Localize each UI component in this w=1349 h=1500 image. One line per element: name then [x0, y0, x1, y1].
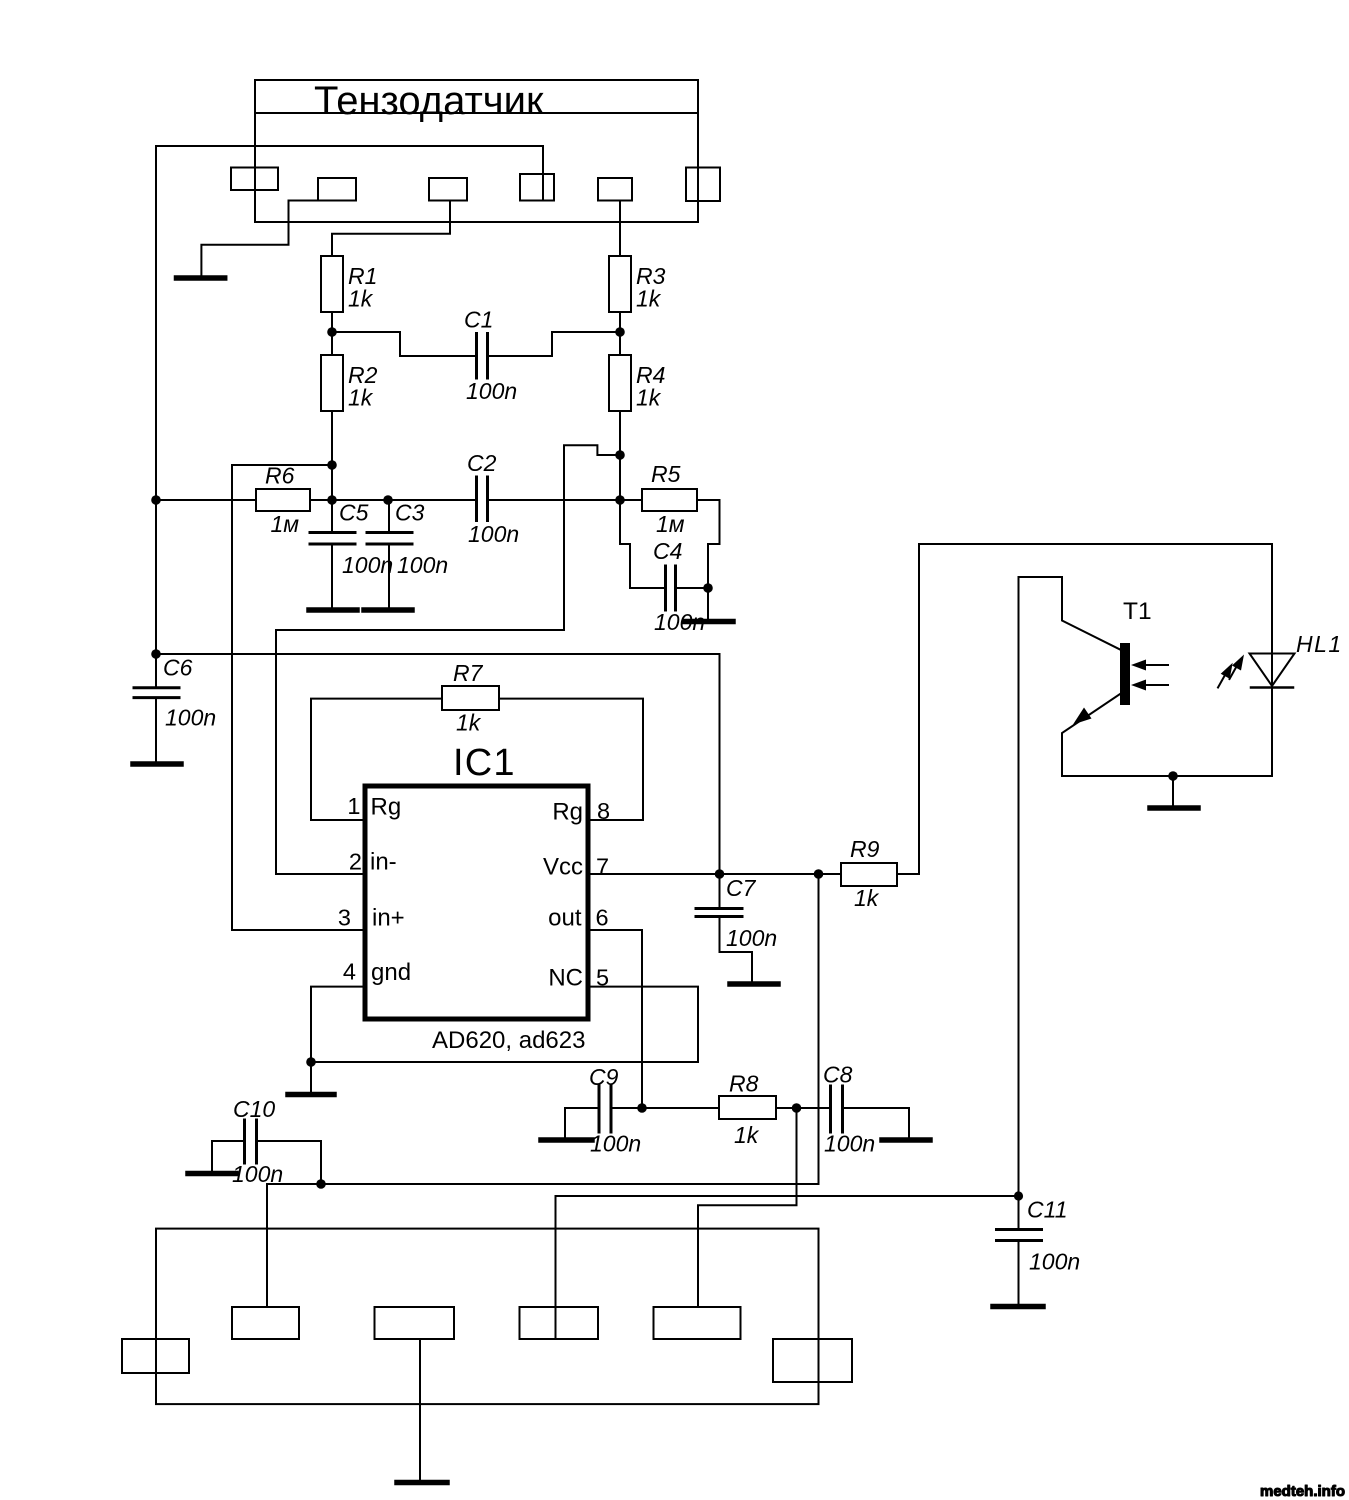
capacitor C11 — [997, 1228, 1042, 1231]
output connector box (bottom) — [156, 1229, 819, 1405]
node: optocoupler ground junction — [1168, 771, 1178, 781]
node D: R4/R5/C2 junction — [615, 495, 625, 505]
ground (C7) — [730, 981, 778, 987]
node: R8/C8 junction — [792, 1103, 802, 1113]
resistor R9 — [841, 863, 897, 886]
svg-text:1k: 1k — [348, 286, 374, 312]
svg-text:1: 1 — [347, 793, 360, 819]
capacitor C7 — [696, 907, 742, 910]
svg-text:C9: C9 — [589, 1064, 619, 1090]
node A: R1/R2/C1 — [327, 327, 337, 337]
pad PA (bottom connector, leftmost) — [122, 1339, 189, 1373]
pad P4 — [520, 174, 554, 201]
wire: IC1 pin6 out down to C9/R8 node — [589, 930, 642, 1108]
wire: IC1 pin4 gnd to ground — [311, 987, 364, 1092]
ground (C9) — [541, 1137, 592, 1143]
pad P5 — [598, 178, 632, 201]
node: R9 left junction — [814, 869, 824, 879]
wire: C3 top stub — [388, 500, 390, 531]
node: C11 / collector / output junction — [1014, 1191, 1023, 1200]
svg-text:100n: 100n — [1029, 1249, 1080, 1275]
svg-text:AD620, ad623: AD620, ad623 — [432, 1027, 585, 1054]
svg-text:Vcc: Vcc — [543, 854, 583, 881]
wire: in+ net (node C to IC1 pin3) — [232, 465, 364, 930]
wire: left vertical rail — [155, 146, 157, 654]
svg-text:C5: C5 — [339, 500, 369, 526]
wire: C10 right to Vcc distribution line — [258, 1141, 321, 1184]
ground (output connector) — [397, 1480, 447, 1486]
wire: pad P5 to R3 top — [619, 201, 621, 257]
wire: Vcc distribution line to pad PB — [267, 1184, 819, 1307]
capacitor C1 — [475, 334, 478, 379]
wire: C3 bottom to ground — [388, 546, 390, 608]
svg-text:3: 3 — [338, 905, 351, 931]
wire: C10 left to ground — [212, 1141, 243, 1171]
pad PC — [375, 1307, 455, 1339]
wire: top horizontal from left rail to pad P4 — [156, 146, 543, 201]
wire: C2 right to R5 left — [490, 499, 643, 501]
resistor R3 — [609, 256, 631, 312]
wire: node D to C4 left — [620, 500, 664, 588]
wire: C6 bottom to ground — [155, 699, 157, 762]
ground (C11) — [993, 1304, 1043, 1310]
LED HL1 — [1250, 654, 1295, 687]
node: R6/C5/R2 junction — [327, 495, 337, 505]
svg-text:in-: in- — [370, 849, 397, 876]
pad PB — [232, 1307, 299, 1339]
wire: C4 right plate to junction — [678, 587, 709, 589]
ground (C10 left) — [188, 1171, 236, 1177]
svg-text:C2: C2 — [467, 450, 497, 476]
svg-text:C6: C6 — [163, 655, 193, 681]
svg-text:Rg: Rg — [371, 794, 402, 821]
wire: output line C11 to pad PD — [556, 1196, 1019, 1339]
ground (C8) — [882, 1137, 930, 1143]
node: R4 bottom / in- tap — [615, 450, 625, 460]
pad P3 — [429, 178, 467, 201]
svg-text:gnd: gnd — [371, 959, 411, 986]
wire: C7 top stub — [719, 874, 721, 906]
svg-text:100n: 100n — [590, 1131, 641, 1157]
svg-text:100n: 100n — [654, 609, 705, 635]
svg-text:100n: 100n — [726, 925, 777, 951]
capacitor C5 — [310, 531, 355, 534]
pad P6 (top connector, rightmost) — [686, 168, 720, 202]
svg-text:IC1: IC1 — [453, 742, 516, 784]
wire: C6 top stub — [155, 654, 157, 686]
svg-text:C7: C7 — [726, 875, 757, 901]
node: pin7 / C7 / Vcc junction — [715, 869, 725, 879]
capacitor C8 — [829, 1086, 832, 1132]
ground (IC1 pin4) — [288, 1092, 334, 1098]
resistor R8 — [719, 1096, 776, 1119]
wire: R3 bottom to R4 top — [619, 312, 621, 355]
transistor T1 base bar — [1120, 643, 1130, 705]
node: C3 junction — [383, 495, 393, 505]
svg-text:C3: C3 — [395, 500, 425, 526]
svg-text:C4: C4 — [653, 538, 682, 564]
transistor T1 emitter lead with arrow — [1062, 694, 1120, 776]
svg-text:in+: in+ — [372, 905, 405, 932]
capacitor C3 — [367, 531, 412, 534]
resistor R1 — [321, 256, 343, 312]
svg-text:NC: NC — [548, 965, 583, 992]
node: C4 right / ground junction — [703, 583, 713, 593]
node B: R3/R4/C1 — [615, 327, 625, 337]
svg-text:medteh.info: medteh.info — [1260, 1483, 1345, 1500]
svg-text:Rg: Rg — [552, 799, 583, 826]
svg-text:Тензодатчик: Тензодатчик — [314, 79, 544, 123]
wire: R7 feedback loop right (pin8) — [499, 699, 643, 820]
LED HL1 emission arrows — [1230, 667, 1237, 680]
pad PD — [520, 1307, 599, 1339]
svg-text:4: 4 — [343, 959, 356, 985]
node: out/C9/R8 junction — [637, 1103, 647, 1113]
wire: C1 right to node B — [490, 332, 621, 356]
svg-text:R7: R7 — [453, 660, 484, 686]
wire: in- net (node at R4 bottom to IC1 pin2) — [276, 445, 619, 874]
resistor R5 — [642, 489, 697, 511]
capacitor C6 — [134, 686, 179, 689]
svg-text:1k: 1k — [636, 385, 662, 411]
capacitor C9 — [598, 1086, 601, 1132]
svg-text:1k: 1k — [636, 286, 662, 312]
svg-text:1м: 1м — [271, 511, 300, 537]
wire: C11 bottom to ground — [1018, 1242, 1020, 1303]
capacitor C4 — [664, 566, 667, 610]
svg-text:5: 5 — [596, 965, 609, 991]
ground (optocoupler emitter/LED cathode) — [1150, 805, 1198, 811]
node C: R2 bottom / in+ tap — [327, 460, 337, 470]
wire: optocoupler top rail — [919, 543, 1272, 545]
wire: Vcc rail from C6 node to IC1 pin7 node — [156, 654, 720, 874]
pad P2 — [318, 178, 356, 201]
wire: C9 left to ground — [565, 1108, 598, 1137]
svg-text:R5: R5 — [651, 461, 681, 487]
wire: R1 bottom to R2 top — [331, 312, 333, 355]
node: C10 junction — [316, 1179, 326, 1189]
ground (C5) — [309, 607, 357, 613]
svg-text:C10: C10 — [233, 1096, 275, 1122]
svg-text:1м: 1м — [656, 511, 685, 537]
wire: C11 top stub — [1018, 1196, 1020, 1229]
wire: pad P2 to top-left ground — [201, 201, 318, 276]
svg-text:1k: 1k — [734, 1122, 760, 1148]
svg-text:6: 6 — [596, 905, 609, 931]
ground (C3) — [364, 607, 412, 613]
svg-text:100n: 100n — [342, 552, 393, 578]
svg-text:100n: 100n — [165, 705, 216, 731]
wire: C9 right to out node — [613, 1107, 643, 1109]
svg-text:C8: C8 — [823, 1062, 853, 1088]
svg-text:R6: R6 — [265, 463, 295, 489]
pad PE — [654, 1307, 741, 1339]
wire: R2 bottom down to C5 (through nodes at y465,y500) — [331, 411, 333, 531]
svg-text:1k: 1k — [854, 885, 880, 911]
wire: node A to C1 left — [332, 332, 475, 356]
capacitor C10 — [243, 1120, 246, 1163]
svg-text:100n: 100n — [397, 552, 448, 578]
svg-text:7: 7 — [596, 854, 609, 880]
svg-text:8: 8 — [597, 798, 610, 824]
transistor T1 incident light arrows — [1140, 664, 1168, 666]
title underline — [255, 112, 698, 114]
node: left rail / Vcc / C6 junction — [151, 649, 161, 659]
resistor R6 — [256, 489, 310, 511]
op-amp IC1 (AD620 instrumentation amplifier) — [365, 786, 588, 1019]
svg-text:T1: T1 — [1123, 598, 1152, 625]
wire: R6 right to C2 left — [310, 499, 474, 501]
svg-text:2: 2 — [349, 849, 362, 875]
svg-text:R8: R8 — [729, 1071, 759, 1097]
wire: R4 bottom down to node D (y500) — [619, 411, 621, 500]
wire: R9 right up to optocoupler box — [897, 544, 919, 874]
svg-text:R9: R9 — [850, 836, 880, 862]
wire: C7 bottom to ground — [720, 918, 753, 981]
svg-text:100n: 100n — [468, 521, 519, 547]
wire: left rail to R6 — [156, 499, 256, 501]
pad PF (bottom connector, rightmost) — [773, 1339, 852, 1382]
ground (R5/C4 right) — [685, 619, 733, 625]
wire: optocoupler bottom rail — [1062, 775, 1272, 777]
wire: R9 left node down to Vcc distribution line — [818, 874, 820, 1184]
wire: pad PC to bottom ground — [419, 1339, 421, 1480]
wire: C8 right to ground — [844, 1108, 909, 1137]
node: pin4/pin5 ground junction — [306, 1057, 316, 1067]
svg-text:100n: 100n — [232, 1161, 283, 1187]
capacitor C2 — [475, 477, 478, 521]
svg-text:100n: 100n — [466, 378, 517, 404]
resistor R2 — [321, 355, 343, 411]
wire: IC1 pin5 NC loop to pin4 node — [311, 987, 698, 1062]
wire: LED anode drop / cathode to box bottom — [1271, 544, 1273, 776]
resistor R7 — [442, 686, 499, 710]
node: left rail / R6 junction — [151, 495, 161, 505]
svg-text:C11: C11 — [1027, 1197, 1068, 1223]
wire: R8/C8 node down to pad PE — [698, 1108, 797, 1307]
wire: pad P3 to R1 top — [332, 201, 450, 257]
ground (top-left, sensor shield) — [177, 275, 225, 281]
pad P1 (top connector, leftmost) — [231, 168, 278, 191]
strain-gauge connector box (Тензодатчик) — [255, 80, 698, 222]
svg-text:100n: 100n — [824, 1131, 875, 1157]
resistor R4 — [609, 355, 631, 411]
ground (C6) — [133, 761, 181, 767]
wire: bottom rail to ground — [1172, 776, 1174, 805]
wire: R8 right to C8 left — [776, 1107, 829, 1109]
svg-text:out: out — [548, 905, 582, 932]
wire: C5 bottom to ground — [331, 546, 333, 608]
svg-text:HL1: HL1 — [1296, 631, 1343, 657]
svg-text:C1: C1 — [464, 307, 493, 333]
wire: IC1 pin7 Vcc to R9 left — [589, 873, 841, 875]
transistor T1 collector lead — [1019, 577, 1121, 1196]
wire: R5 right to ground — [697, 500, 720, 619]
svg-text:1k: 1k — [348, 385, 374, 411]
svg-text:1k: 1k — [456, 710, 482, 736]
wire: R7 feedback loop left (pin1) — [311, 699, 442, 820]
wire: out node to R8 — [642, 1107, 719, 1109]
